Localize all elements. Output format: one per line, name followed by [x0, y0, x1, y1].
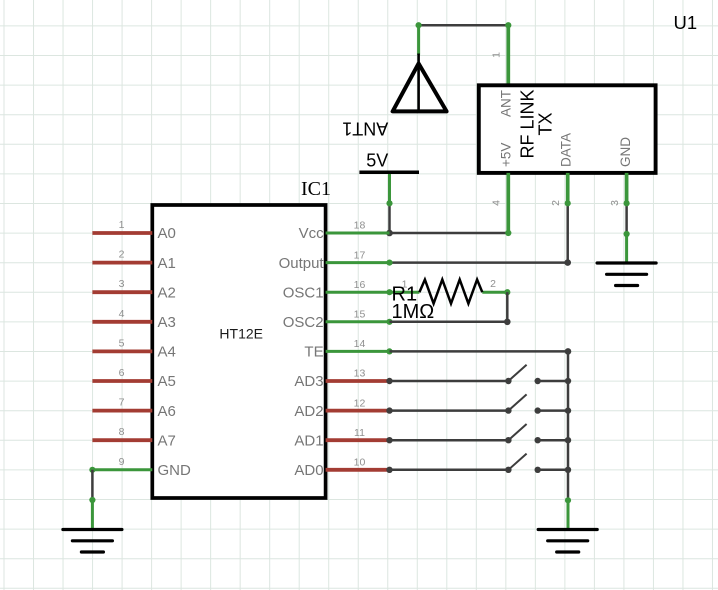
svg-text:10: 10: [354, 457, 366, 469]
svg-text:A2: A2: [158, 284, 176, 301]
svg-text:HT12E: HT12E: [219, 325, 263, 341]
svg-text:14: 14: [354, 338, 366, 350]
svg-text:A3: A3: [158, 314, 176, 331]
svg-text:1: 1: [119, 219, 125, 231]
svg-text:OSC1: OSC1: [283, 284, 324, 301]
svg-text:6: 6: [119, 367, 125, 379]
svg-text:1: 1: [491, 52, 503, 58]
svg-text:3: 3: [609, 200, 621, 206]
svg-text:AD1: AD1: [294, 432, 323, 449]
svg-text:Output: Output: [279, 255, 325, 272]
svg-text:DATA: DATA: [558, 133, 573, 167]
svg-text:12: 12: [354, 397, 366, 409]
svg-text:TX: TX: [536, 112, 556, 135]
svg-text:17: 17: [354, 249, 366, 261]
svg-text:AD2: AD2: [294, 403, 323, 420]
svg-text:4: 4: [491, 200, 503, 206]
svg-text:IC1: IC1: [301, 178, 331, 200]
svg-text:11: 11: [354, 427, 365, 439]
svg-text:A1: A1: [158, 255, 176, 272]
svg-text:16: 16: [354, 279, 366, 291]
svg-text:ANT1: ANT1: [342, 118, 388, 138]
svg-text:5: 5: [119, 337, 125, 349]
svg-text:GND: GND: [158, 462, 192, 479]
svg-text:AD3: AD3: [294, 373, 323, 390]
svg-text:Vcc: Vcc: [299, 225, 325, 242]
svg-text:3: 3: [119, 278, 125, 290]
svg-text:A5: A5: [158, 373, 176, 390]
svg-text:9: 9: [119, 456, 125, 468]
svg-text:2: 2: [490, 278, 496, 290]
svg-text:5V: 5V: [366, 151, 388, 171]
svg-text:U1: U1: [674, 12, 698, 33]
svg-text:2: 2: [119, 249, 125, 261]
svg-text:TE: TE: [304, 344, 323, 361]
svg-text:A7: A7: [158, 432, 176, 449]
svg-text:15: 15: [354, 309, 366, 321]
svg-text:13: 13: [354, 368, 366, 380]
svg-text:8: 8: [119, 426, 125, 438]
svg-text:+5V: +5V: [499, 143, 514, 167]
svg-text:18: 18: [354, 220, 366, 232]
svg-text:7: 7: [119, 397, 125, 409]
svg-text:AD0: AD0: [294, 462, 323, 479]
svg-text:ANT: ANT: [499, 90, 514, 117]
svg-text:A6: A6: [158, 403, 176, 420]
svg-text:OSC2: OSC2: [283, 314, 324, 331]
svg-text:A0: A0: [158, 225, 176, 242]
svg-text:A4: A4: [158, 344, 176, 361]
svg-text:RF LINK: RF LINK: [518, 89, 538, 158]
svg-text:1MΩ: 1MΩ: [392, 301, 435, 323]
svg-text:4: 4: [119, 308, 125, 320]
svg-text:2: 2: [550, 200, 562, 206]
svg-text:GND: GND: [618, 137, 633, 167]
